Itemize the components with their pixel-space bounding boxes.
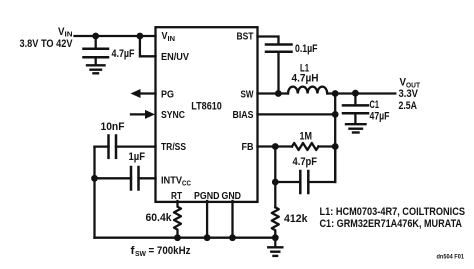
capacitor C1 47uF output [343,93,368,123]
wire left vertical to bottom rail [93,147,95,238]
svg-text:0.1µF: 0.1µF [295,43,318,55]
wire EN/UV [140,36,156,56]
svg-text:PG: PG [161,90,174,101]
wire SYNC with arrow in [131,110,155,119]
svg-text:10nF: 10nF [101,121,125,133]
svg-text:4.7pF: 4.7pF [293,156,318,168]
wire GND down [231,201,233,238]
svg-text:412k: 412k [284,213,308,225]
svg-text:INTV: INTV [161,176,182,187]
wire 1M to vertical [318,145,335,147]
wire stub to input cap [95,36,97,48]
node junction RT rail [174,234,181,241]
node SW junction [275,90,282,97]
wire BST to bootstrap cap [258,37,279,44]
wire FB to divider [258,145,293,147]
svg-text:4.7µH: 4.7µH [292,73,319,85]
svg-text:2.5A: 2.5A [399,100,418,112]
svg-text:EN/UV: EN/UV [161,52,189,63]
svg-text:SYNC: SYNC [161,110,185,121]
ground under input cap [87,65,105,73]
node EN/UV junction [137,33,144,40]
wire VOUT line [327,92,395,94]
node junction inductor/feedback [332,90,339,97]
svg-text:BIAS: BIAS [233,110,254,121]
wire bottom ground rail [95,237,276,239]
pin INTVCC label [161,176,191,188]
node junction GND rail [229,234,236,241]
svg-text:3.3V: 3.3V [399,88,419,100]
svg-text:60.4k: 60.4k [146,212,173,224]
value label fSW = 700kHz [131,245,191,258]
capacitor 0.1uF bootstrap [266,45,292,94]
ground at divider [268,238,282,256]
svg-text:47µF: 47µF [370,111,390,123]
node label VOUT [400,77,421,90]
svg-text:CC: CC [182,180,191,187]
inductor L1 4.7uH [288,87,327,94]
ground under C1 [346,124,366,132]
wire VIN input to pin VIN [75,35,156,37]
svg-text:GND: GND [222,191,242,202]
svg-text:1M: 1M [300,130,313,142]
capacitor 4.7pF feedforward [275,147,335,194]
node junction 412k ground [272,234,279,241]
svg-text:= 700kHz: = 700kHz [149,245,191,257]
resistor 60.4k on RT [174,201,181,238]
svg-text:3.8V TO 42V: 3.8V TO 42V [20,38,74,50]
svg-text:PGND: PGND [194,191,220,202]
wire BIAS [258,113,336,115]
node junction 1uF/10nF left rail [91,175,98,182]
node junction 4.7pF left [272,179,279,186]
svg-text:C1: C1 [370,99,380,111]
node label VIN [58,26,73,39]
svg-text:FB: FB [242,142,254,153]
svg-text:LT8610: LT8610 [191,101,222,113]
node FB junction [272,143,279,150]
resistor 1M feedback top [292,143,318,150]
node junction 1M right [332,143,339,150]
node junction VOUT/C1 [352,90,359,97]
resistor 412k feedback bottom [272,207,279,237]
svg-text:SW: SW [241,90,254,101]
wire PG with arrow out [131,89,156,98]
op-amp U1 LT8610 IC body [156,27,258,202]
capacitor 4.7uF input [84,49,109,65]
capacitor 1uF on INTVCC [95,167,156,190]
pin VIN label [162,31,176,43]
capacitor 10nF on TR/SS [95,136,156,158]
node VIN junction at input cap [92,33,99,40]
node junction PGND rail [204,234,211,241]
wire FB divider vertical [274,147,276,208]
wire feedback vertical right [334,94,336,183]
svg-text:IN: IN [168,36,176,43]
node junction BIAS [332,111,339,118]
wire PGND down [206,201,208,238]
svg-text:4.7µF: 4.7µF [112,48,135,60]
svg-text:TR/SS: TR/SS [161,142,186,153]
svg-text:L1: HCM0703-4R7, COILTRONICS: L1: HCM0703-4R7, COILTRONICS [320,206,466,218]
wire SW to inductor [258,92,289,94]
svg-text:C1: GRM32ER71A476K, MURATA: C1: GRM32ER71A476K, MURATA [320,218,463,230]
svg-text:dn504 F01: dn504 F01 [437,254,465,261]
svg-text:RT: RT [171,191,183,202]
svg-text:SW: SW [135,249,147,258]
svg-text:1µF: 1µF [129,151,146,163]
svg-text:BST: BST [237,32,255,43]
